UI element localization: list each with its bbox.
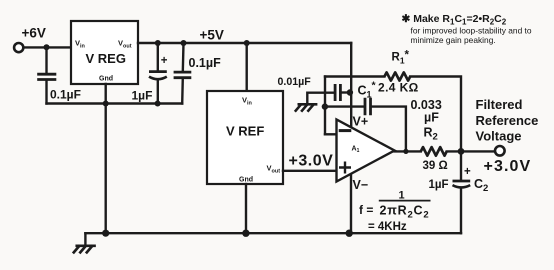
svg-text:V+: V+ xyxy=(353,115,369,129)
wire input cap to ground rail A xyxy=(45,80,47,104)
formula f = 1/(2 pi R2C2) xyxy=(359,190,429,234)
node input cap junction xyxy=(44,44,50,50)
wire ground to 0.01uF cap xyxy=(307,93,333,104)
wire +6V terminal to VREG Vin xyxy=(24,46,71,48)
ground rail A under VREG xyxy=(47,102,183,104)
svg-text:2.4 KΩ: 2.4 KΩ xyxy=(378,81,419,95)
junction C1 branch on minus rail xyxy=(322,103,328,109)
junction C1 feedback on output xyxy=(403,149,408,154)
svg-text:Voltage: Voltage xyxy=(476,128,522,143)
wire C1 to opamp output xyxy=(372,107,406,152)
wire R2 to output terminal xyxy=(447,150,494,152)
node 0.1uF on +5V rail xyxy=(181,40,187,46)
wire V+ supply from +5V rail down to opamp xyxy=(350,43,352,127)
wire minus rail to opamp inverting input xyxy=(325,133,338,135)
capacitor 0.1uF on +5V xyxy=(174,43,192,104)
junction VREG gnd and rail A xyxy=(103,101,109,107)
output node xyxy=(458,148,465,155)
wire VREF Gnd stem xyxy=(245,184,247,233)
wire V- supply down to ground rail xyxy=(350,175,352,233)
svg-text:+: + xyxy=(464,166,471,178)
terminal output +3.0V xyxy=(495,146,505,156)
wire 0.01uF cap to V+ line xyxy=(342,91,350,93)
svg-text:1µF: 1µF xyxy=(132,89,153,103)
node VREF Vin on +5V rail xyxy=(244,40,250,46)
wire inverting input rail xyxy=(324,77,326,135)
resistor R1 xyxy=(384,72,410,80)
svg-text:+5V: +5V xyxy=(200,28,224,43)
svg-text:0.1µF: 0.1µF xyxy=(50,88,81,102)
wire R1 feedback top xyxy=(325,75,384,77)
wire VREF Vin stem xyxy=(245,43,247,91)
capacitor 0.01uF xyxy=(335,84,340,101)
wire R1 to output node xyxy=(410,77,461,152)
wire +5V rail from VREG Vout xyxy=(138,42,351,44)
svg-text:µF: µF xyxy=(424,111,439,125)
junction VREF gnd and bottom rail xyxy=(242,230,249,237)
resistor R2 xyxy=(421,147,447,156)
wire C1 branch xyxy=(325,105,363,107)
regulator V REG box xyxy=(71,21,138,84)
fraction bar xyxy=(380,200,430,202)
capacitor 0.1uF input xyxy=(37,74,56,79)
wire VREF Vout to opamp plus input xyxy=(283,170,338,172)
svg-text:V−: V− xyxy=(353,178,369,192)
capacitor 1uF polarized xyxy=(149,43,168,104)
svg-text:Gnd: Gnd xyxy=(239,177,253,184)
svg-text:Gnd: Gnd xyxy=(99,76,113,83)
svg-text:0.1µF: 0.1µF xyxy=(189,56,222,70)
capacitor C2 xyxy=(453,151,472,233)
svg-text:1µF: 1µF xyxy=(429,179,449,191)
svg-text:V REG: V REG xyxy=(86,51,126,66)
svg-text:Filtered: Filtered xyxy=(476,97,523,112)
svg-text:39 Ω: 39 Ω xyxy=(423,160,448,172)
junction 1uF cap and rail A xyxy=(155,101,161,107)
terminal +6V input xyxy=(14,43,23,52)
reference V REF box xyxy=(207,91,283,184)
wire opamp output xyxy=(395,150,421,152)
bottom ground rail xyxy=(85,232,461,234)
ground symbol bottom left xyxy=(74,246,95,253)
svg-text:+6V: +6V xyxy=(22,26,46,41)
note: Make R1C1 = 2 R2C2 xyxy=(402,13,532,45)
junction opamp V- and bottom rail xyxy=(346,230,353,237)
svg-text:+3.0V: +3.0V xyxy=(289,153,334,170)
svg-text:+3.0V: +3.0V xyxy=(484,158,532,175)
svg-text:V REF: V REF xyxy=(226,124,264,139)
wire down to input cap xyxy=(45,47,47,74)
svg-text:= 4KHz: = 4KHz xyxy=(368,221,407,233)
svg-text:f =: f = xyxy=(359,203,373,217)
svg-text:minimize gain peaking.: minimize gain peaking. xyxy=(411,35,496,45)
svg-text:for improved loop-stability an: for improved loop-stability and to xyxy=(411,26,532,36)
svg-text:1: 1 xyxy=(399,190,405,202)
junction VREG gnd and bottom rail xyxy=(102,230,109,237)
node 1uF on +5V rail xyxy=(155,40,161,46)
wire stub to ground symbol xyxy=(84,233,86,245)
wire VREG Gnd stem down to bottom ground rail xyxy=(104,84,106,233)
ground symbol at opamp xyxy=(296,104,316,110)
svg-text:0.01µF: 0.01µF xyxy=(278,76,312,88)
svg-text:Reference: Reference xyxy=(476,113,539,128)
junction 0.01uF cap on V+ line xyxy=(347,89,353,95)
svg-text:+: + xyxy=(161,55,168,67)
op-amp A1 xyxy=(337,120,395,182)
capacitor C1 xyxy=(365,98,371,115)
